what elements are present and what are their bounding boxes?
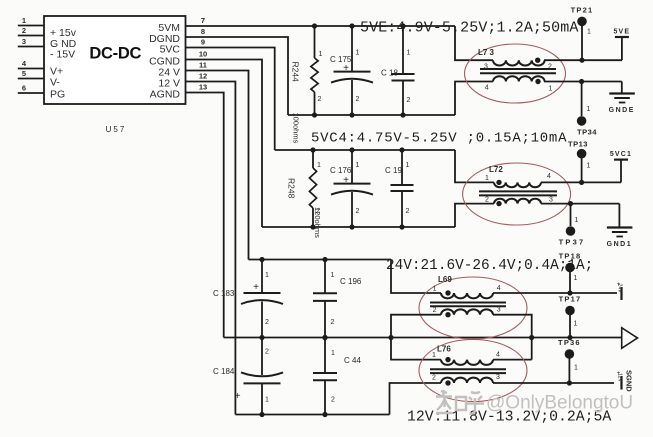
svg-text:C 176: C 176 — [330, 166, 352, 175]
C184 plus sign — [235, 391, 241, 402]
svg-text:GNDE: GNDE — [609, 107, 635, 114]
C196 pin 2 — [331, 319, 335, 326]
L73 top polarity dot — [535, 58, 540, 63]
pin 7 label 5VM — [158, 22, 180, 34]
node junction C184 bottom — [259, 412, 264, 417]
L69 pin 2 — [433, 307, 437, 314]
pin 13 number — [199, 83, 207, 92]
svg-text:SGND: SGND — [625, 370, 634, 392]
pin 9 number — [201, 38, 205, 47]
resistor R248 — [309, 150, 316, 227]
svg-text:3: 3 — [22, 37, 26, 46]
C183 label — [213, 289, 235, 298]
L76 core — [430, 369, 506, 373]
svg-text:12: 12 — [199, 72, 207, 81]
inductor L73 bottom winding — [493, 76, 545, 81]
wire pin11 24V down — [186, 71, 249, 260]
svg-text:1: 1 — [574, 365, 578, 372]
test point TP21 — [571, 5, 594, 60]
L69 pin 3 — [497, 307, 501, 314]
L69 core — [430, 303, 506, 307]
L72 pin 2 — [485, 197, 489, 204]
pin 11 label 24 V — [158, 67, 180, 79]
power tap +24V bar — [617, 282, 623, 300]
node junction R248 top — [310, 147, 315, 152]
svg-text:L69: L69 — [438, 275, 452, 284]
ground symbol GNDE — [609, 82, 635, 115]
pin 3 label - 15V — [50, 49, 75, 61]
node junction R244 bottom — [312, 112, 317, 117]
svg-text:2: 2 — [485, 197, 489, 204]
svg-text:6: 6 — [22, 84, 26, 93]
L72 pin 1 — [485, 175, 489, 182]
inductor L76 bottom winding — [441, 378, 493, 383]
svg-text:3: 3 — [496, 374, 500, 381]
svg-text:C 184: C 184 — [213, 367, 235, 376]
svg-text:1: 1 — [587, 163, 591, 170]
wire L73 pin2 to 5VE — [544, 59, 622, 61]
svg-text:1: 1 — [319, 51, 323, 58]
node junction C18 bottom — [400, 112, 405, 117]
svg-text:4: 4 — [22, 59, 27, 68]
svg-text:11: 11 — [199, 61, 207, 70]
svg-text:1: 1 — [317, 162, 321, 169]
SGND net label — [625, 370, 634, 392]
node junction C176 top — [349, 147, 354, 152]
inductor L72 bottom winding — [494, 199, 541, 204]
L76 pin 1 — [432, 352, 436, 359]
svg-text:2: 2 — [22, 26, 26, 35]
svg-text:2: 2 — [356, 96, 360, 103]
C184 pin 2 — [265, 349, 269, 356]
svg-text:+: + — [235, 391, 241, 402]
inductor L73 circle annotation — [465, 44, 566, 103]
inductor L76 circle annotation — [419, 340, 527, 402]
svg-text:1: 1 — [406, 162, 410, 169]
svg-text:1: 1 — [574, 275, 578, 282]
L72 core — [479, 191, 557, 195]
node junction C19 bottom — [399, 224, 404, 229]
svg-text:4: 4 — [497, 285, 501, 292]
svg-text:L76: L76 — [437, 345, 451, 354]
output arrow (buffer triangle) — [622, 328, 638, 349]
svg-text:5VE:4.9V-5.25V;1.2A;50mA: 5VE:4.9V-5.25V;1.2A;50mA — [360, 20, 578, 37]
svg-text:+: + — [343, 63, 349, 74]
wire DGND bottom rail row1 — [288, 114, 455, 116]
inductor L69 circle annotation — [419, 277, 527, 339]
wire CGND rail corner up to L72 pin2 — [455, 204, 494, 227]
wire L73 pin1 to GNDE — [544, 81, 622, 83]
C196 pin 1 — [331, 272, 335, 279]
node junction R244 top — [312, 23, 317, 28]
capacitor C196 — [313, 260, 337, 338]
L69 label — [438, 275, 452, 284]
svg-text:13: 13 — [199, 83, 207, 92]
svg-text:1: 1 — [356, 50, 360, 57]
C183 plus sign — [253, 282, 259, 293]
wire CGND bottom rail row2 — [262, 226, 455, 228]
node junction TP18 — [567, 290, 572, 295]
svg-text:L72: L72 — [489, 165, 503, 174]
svg-text:10: 10 — [199, 50, 207, 59]
watermark zhihu glyphs — [436, 390, 484, 414]
svg-text:C 196: C 196 — [340, 277, 362, 286]
svg-text:C 19: C 19 — [385, 166, 402, 175]
svg-text:5VC4:4.75V-5.25V ;0.15A;10mA: 5VC4:4.75V-5.25V ;0.15A;10mA — [311, 131, 567, 147]
L76 bottom polarity dot — [445, 380, 450, 385]
wire AGND rail down to L76 pin1 — [391, 338, 441, 360]
svg-text:4: 4 — [485, 85, 489, 92]
R244 pin 2 — [318, 96, 322, 103]
pin 5 label V- — [50, 77, 60, 89]
node junction C183 top — [259, 257, 264, 262]
svg-text:U57: U57 — [106, 125, 127, 134]
node junction C44 bottom — [322, 412, 327, 417]
svg-text:TP13: TP13 — [568, 140, 588, 149]
L72 pin 4 — [547, 173, 551, 180]
wire pin10 CGND down — [186, 60, 263, 228]
C44 pin 2 — [331, 397, 335, 404]
wire 5VC rail corner down to L72 pin1 — [455, 150, 494, 182]
capacitor C183 (polarized) — [241, 260, 283, 338]
svg-text:2: 2 — [265, 349, 269, 356]
svg-text:DC-DC: DC-DC — [89, 45, 141, 63]
node junction TP17 — [567, 335, 572, 340]
pin 1 label + 15v — [50, 27, 77, 39]
pin 4 label V+ — [50, 66, 63, 78]
svg-text:5: 5 — [22, 69, 26, 78]
test point TP17 — [559, 295, 582, 338]
svg-text:7: 7 — [201, 16, 205, 25]
svg-text:2: 2 — [318, 96, 322, 103]
L73 core — [480, 69, 556, 73]
pin 1 wire (+ 15v) — [18, 16, 44, 26]
pin 3 wire (- 15V) — [18, 37, 44, 47]
svg-text:PG: PG — [50, 89, 65, 101]
wire pin13 AGND down — [186, 93, 224, 338]
node junction C196 top — [322, 257, 327, 262]
svg-text:1: 1 — [22, 16, 26, 25]
L72 top polarity dot — [496, 180, 501, 185]
capacitor C184 (polarized, flipped) — [241, 338, 283, 415]
wire DGND rail corner up to L73 pin4 — [455, 82, 493, 116]
pin 8 label DGND — [149, 33, 180, 45]
wire L72 pin4 to 5VC1 — [541, 181, 621, 183]
svg-text:+: + — [343, 175, 349, 186]
pin 12 label 12 V — [158, 78, 180, 90]
C44 label — [344, 356, 361, 365]
node junction C176 bottom — [349, 224, 354, 229]
svg-text:1: 1 — [265, 272, 269, 279]
pin 13 label AGND — [150, 89, 181, 101]
node junction TP21 — [579, 58, 584, 63]
svg-text:+: + — [253, 282, 259, 293]
C183 pin 1 — [265, 272, 269, 279]
C176 pin 1 — [356, 162, 360, 169]
svg-text:R248: R248 — [287, 178, 297, 199]
node junction TP34 — [579, 79, 584, 84]
L76 pin 2 — [432, 375, 436, 382]
power symbol 5VC1 — [610, 151, 632, 182]
capacitor C44 — [313, 338, 337, 415]
test point TP18 — [559, 252, 582, 294]
text 24V spec — [386, 258, 593, 274]
svg-text:1: 1 — [331, 272, 335, 279]
svg-text:2: 2 — [316, 208, 320, 215]
C19 pin 2 — [406, 208, 410, 215]
pin 10 number — [199, 50, 207, 59]
node junction C175 bottom — [349, 112, 354, 117]
wire L76 pin4 up join — [493, 359, 532, 361]
pin 2 label G ND — [50, 38, 77, 50]
svg-text:C 183: C 183 — [213, 289, 235, 298]
L76 label — [437, 345, 451, 354]
C175 pin 2 — [356, 96, 360, 103]
svg-text:C 18: C 18 — [381, 69, 398, 78]
L73 label — [478, 48, 495, 57]
capacitor C18 — [392, 26, 415, 115]
svg-text:3: 3 — [497, 307, 501, 314]
C18 pin 1 — [407, 50, 411, 57]
inductor L76 top winding — [441, 360, 493, 365]
C18 pin 2 — [407, 97, 411, 104]
svg-text:2: 2 — [356, 208, 360, 215]
text 5VE spec — [360, 20, 578, 37]
C175 plus sign — [343, 63, 349, 74]
DC-DC converter U57 body — [44, 16, 186, 104]
pin 11 number — [199, 61, 207, 70]
svg-text:1: 1 — [407, 50, 411, 57]
R248 label — [287, 178, 297, 199]
wire L69 pin2 down to AGND rail — [391, 315, 441, 338]
text 12V spec — [407, 410, 611, 426]
L69 top polarity dot — [445, 290, 450, 295]
node junction R248 bottom — [310, 224, 315, 229]
svg-text:+: + — [617, 282, 621, 288]
node junction C44 middle — [322, 335, 327, 340]
text 5VC4 spec — [311, 131, 567, 147]
svg-text:1: 1 — [574, 321, 578, 328]
wire 24V rail corner down to L69 pin1 — [391, 260, 441, 294]
resistor R244 — [311, 26, 318, 115]
node junction TP13 — [579, 180, 584, 185]
L73 pin 2 — [548, 64, 552, 71]
L69 pin 1 — [433, 286, 437, 293]
svg-text:2: 2 — [407, 97, 411, 104]
test point TP13 — [577, 149, 591, 183]
TP13 label — [568, 140, 588, 149]
svg-text:TP36: TP36 — [558, 338, 581, 347]
svg-text:R244: R244 — [291, 62, 301, 83]
C19 label — [385, 166, 402, 175]
C183 pin 2 — [265, 319, 269, 326]
C175 pin 1 — [356, 50, 360, 57]
pin 7 number — [201, 16, 205, 25]
svg-text:1: 1 — [587, 29, 591, 36]
svg-text:5VC: 5VC — [160, 44, 181, 56]
wire pin9 5VC down — [186, 48, 275, 151]
pin 10 label CGND — [149, 56, 180, 68]
pin 8 number — [201, 27, 205, 36]
svg-text:1: 1 — [575, 217, 579, 224]
wire L72 pin3 to GND1 — [541, 203, 619, 205]
pin 6 wire (PG) — [18, 84, 44, 94]
svg-text:4: 4 — [547, 173, 551, 180]
svg-text:2: 2 — [265, 319, 269, 326]
pin 6 label PG — [50, 89, 65, 101]
svg-text:3: 3 — [549, 197, 553, 204]
C175 label — [330, 55, 352, 64]
watermark @OnlyBelongtoU — [486, 393, 633, 414]
pin 5 wire (V-) — [18, 69, 44, 79]
svg-text:5VC1: 5VC1 — [610, 151, 632, 158]
svg-text:5VE: 5VE — [613, 29, 630, 36]
svg-text:1: 1 — [433, 286, 437, 293]
svg-text:2: 2 — [432, 375, 436, 382]
svg-text:8: 8 — [201, 27, 205, 36]
R244 pin 1 — [319, 51, 323, 58]
node junction C196 middle — [322, 335, 327, 340]
node junction TP37 — [568, 201, 573, 206]
svg-text:V-: V- — [50, 77, 60, 89]
svg-text:4: 4 — [496, 352, 500, 359]
power tap +12V SGND bar — [617, 371, 623, 390]
node junction C175 top — [349, 23, 354, 28]
test point TP36 — [558, 338, 581, 383]
L76 pin 3 — [496, 374, 500, 381]
L72 bottom polarity dot — [496, 201, 501, 206]
wire 24V top rail row3 — [249, 259, 392, 261]
wire pin8 DGND down — [186, 37, 289, 115]
C18 label — [381, 69, 398, 78]
R244 label — [291, 62, 301, 83]
svg-text:@OnlyBelongtoU: @OnlyBelongtoU — [486, 393, 633, 414]
C44 pin 1 — [331, 350, 335, 357]
svg-text:C 44: C 44 — [344, 356, 361, 365]
node junction C19 top — [399, 147, 404, 152]
R248 pin 1 — [317, 162, 321, 169]
L73 pin 3 — [484, 64, 488, 71]
svg-text:100ohms: 100ohms — [292, 113, 301, 144]
R244 value 100ohms — [292, 113, 301, 144]
wire 12V rail corner up to L76 pin2 — [390, 383, 442, 415]
R248 pin 2 — [316, 208, 320, 215]
capacitor C176 (polarized) — [331, 150, 373, 227]
node junction AGND x531 — [529, 335, 534, 340]
wire AGND rail — [224, 337, 622, 339]
svg-text:TP18: TP18 — [559, 252, 582, 261]
pin 4 wire (V+) — [18, 59, 44, 69]
C176 label — [330, 166, 352, 175]
L73 bottom polarity dot — [535, 79, 540, 84]
svg-text:2: 2 — [548, 64, 552, 71]
wire 5VC top rail row2 — [275, 149, 455, 151]
node junction TP36 — [567, 380, 572, 385]
capacitor C19 — [391, 150, 414, 227]
svg-text:3: 3 — [484, 64, 488, 71]
pin 9 label 5VC — [160, 44, 181, 56]
svg-text:1: 1 — [265, 397, 269, 404]
C19 pin 1 — [406, 162, 410, 169]
svg-text:TP21: TP21 — [571, 5, 594, 14]
inductor L69 top winding — [441, 293, 493, 298]
svg-text:- 15V: - 15V — [50, 49, 75, 61]
svg-text:AGND: AGND — [150, 89, 181, 101]
svg-text:2: 2 — [406, 208, 410, 215]
svg-text:2: 2 — [331, 319, 335, 326]
svg-text:1: 1 — [587, 106, 591, 113]
L73 pin 4 — [485, 85, 489, 92]
TP34 label — [577, 128, 597, 137]
svg-text:+: + — [617, 371, 621, 377]
C196 label — [340, 277, 362, 286]
pin 12 number — [199, 72, 207, 81]
svg-text:1: 1 — [356, 162, 360, 169]
svg-text:TP37: TP37 — [559, 238, 586, 247]
C184 pin 1 — [265, 397, 269, 404]
L76 top polarity dot — [445, 357, 450, 362]
C176 pin 2 — [356, 208, 360, 215]
C184 label — [213, 367, 235, 376]
capacitor C175 (polarized) — [331, 26, 373, 115]
svg-text:1: 1 — [549, 86, 553, 93]
svg-text:1: 1 — [331, 350, 335, 357]
L69 pin 4 — [497, 285, 501, 292]
node junction C183 middle — [259, 335, 264, 340]
wire L69 pin4 out — [493, 292, 617, 294]
node junction AGND x391 — [388, 335, 393, 340]
svg-text:1: 1 — [485, 175, 489, 182]
wire L76 pin3 out to SGND — [493, 382, 614, 384]
C176 plus sign — [343, 175, 349, 186]
test point TP34 — [577, 82, 591, 126]
svg-text:2: 2 — [331, 397, 335, 404]
L72 label — [489, 165, 503, 174]
inductor L72 circle annotation — [463, 163, 571, 225]
inductor L69 bottom winding — [441, 309, 493, 314]
svg-text:TP34: TP34 — [577, 128, 597, 137]
L76 pin 4 — [496, 352, 500, 359]
R248 value 120ohms — [313, 207, 322, 238]
pin 2 wire (G ND) — [18, 26, 44, 36]
L72 pin 3 — [549, 197, 553, 204]
svg-text:L7 3: L7 3 — [478, 48, 495, 57]
test point TP37 — [559, 204, 586, 247]
L69 bottom polarity dot — [445, 312, 450, 317]
svg-text:GND1: GND1 — [607, 241, 632, 248]
wire pin12 12V down — [186, 82, 236, 415]
node junction C18 top — [400, 23, 405, 28]
inductor L72 top winding — [494, 182, 541, 187]
wire 5VM rail corner down to L73 pin3 — [455, 26, 493, 60]
wire pin7 5VM rail — [186, 25, 456, 27]
power symbol 5VE — [613, 29, 630, 61]
inductor L73 top winding — [493, 60, 545, 65]
svg-text:9: 9 — [201, 38, 205, 47]
svg-text:1: 1 — [432, 352, 436, 359]
ground symbol GND1 — [607, 204, 633, 248]
wire 12V bottom rail row4 — [235, 414, 389, 416]
L73 pin 1 — [549, 86, 553, 93]
U57 reference designator — [106, 125, 127, 134]
svg-text:2: 2 — [433, 307, 437, 314]
svg-text:TP17: TP17 — [559, 295, 582, 304]
wire L69 pin3 to AGND rail — [493, 315, 532, 360]
